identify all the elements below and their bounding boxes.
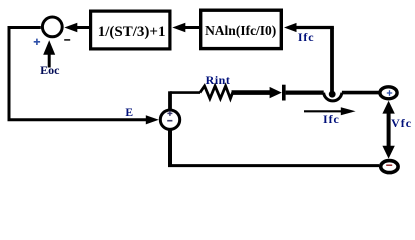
svg-text:Rint: Rint	[206, 73, 231, 87]
svg-text:NAln(Ifc/I0): NAln(Ifc/I0)	[205, 23, 276, 38]
svg-text:Ifc: Ifc	[323, 112, 340, 126]
svg-text:Ifc: Ifc	[298, 30, 315, 44]
svg-text:Eoc: Eoc	[40, 63, 60, 77]
svg-text:1/(ST/3)+1: 1/(ST/3)+1	[98, 24, 166, 40]
svg-text:E: E	[125, 107, 133, 119]
svg-text:Vfc: Vfc	[391, 116, 412, 130]
